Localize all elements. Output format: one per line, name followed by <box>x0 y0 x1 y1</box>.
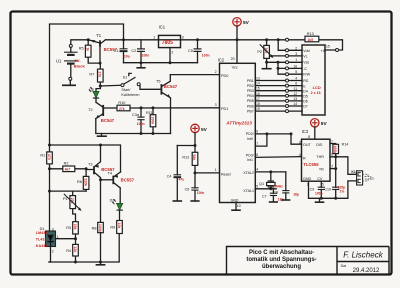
capacitor C8 18p <box>273 172 298 200</box>
svg-text:C2: C2 <box>131 49 136 53</box>
svg-text:R2: R2 <box>64 162 69 166</box>
svg-text:PD3/: PD3/ <box>246 153 254 157</box>
svg-text:3: 3 <box>52 227 54 231</box>
capacitor C3a 100n <box>132 106 145 135</box>
svg-text:2 x 16: 2 x 16 <box>311 91 321 95</box>
svg-text:15: 15 <box>326 45 330 49</box>
svg-text:R5: R5 <box>79 46 84 50</box>
svg-text:8: 8 <box>308 135 310 139</box>
svg-text:TLC555: TLC555 <box>303 162 319 167</box>
svg-text:C10: C10 <box>324 188 331 192</box>
wire PB4 to LCD D5 <box>255 95 302 97</box>
resistor R14 <box>330 142 348 156</box>
svg-text:R10: R10 <box>118 101 125 105</box>
transistor T2 BC547 <box>88 102 117 123</box>
svg-text:14: 14 <box>293 102 297 106</box>
svg-text:470: 470 <box>47 154 51 160</box>
svg-text:10MHz: 10MHz <box>273 185 284 189</box>
wire IC2 Vcc pin 20 <box>236 40 238 64</box>
capacitor C5 100n <box>188 38 210 62</box>
svg-text:PB4: PB4 <box>247 94 254 98</box>
IC1 7805 <box>153 25 184 63</box>
transistor T1 BC557 <box>88 33 117 63</box>
svg-text:7: 7 <box>256 142 258 146</box>
capacitor C10 220p <box>324 186 345 199</box>
resistor R13 <box>305 32 319 42</box>
crystal Q1 10MHz <box>259 172 283 189</box>
svg-text:10: 10 <box>237 204 241 208</box>
wire PB1 to LCD RS <box>255 80 302 82</box>
node R7 top junction <box>99 62 102 65</box>
svg-text:5: 5 <box>256 184 258 188</box>
svg-text:C7: C7 <box>262 194 267 198</box>
svg-text:D3: D3 <box>110 198 115 202</box>
svg-text:56k: 56k <box>192 154 196 160</box>
node T3 collector / T4 base <box>99 178 102 181</box>
svg-text:PB6: PB6 <box>247 104 254 108</box>
svg-text:4: 4 <box>299 153 301 157</box>
svg-text:Vss: Vss <box>303 61 309 65</box>
svg-text:R: R <box>303 156 306 160</box>
wire P1 branch <box>50 190 87 192</box>
svg-text:F. Lischeck: F. Lischeck <box>343 250 383 259</box>
svg-text:BC547: BC547 <box>164 84 178 89</box>
svg-text:100k: 100k <box>333 145 337 153</box>
svg-text:OUT: OUT <box>303 143 312 147</box>
svg-text:100k: 100k <box>150 116 154 124</box>
svg-text:Reset: Reset <box>221 172 231 176</box>
svg-text:5V: 5V <box>201 127 208 133</box>
svg-text:2: 2 <box>215 70 217 74</box>
resistor R10 27k <box>117 101 220 111</box>
svg-text:PD2/: PD2/ <box>246 132 254 136</box>
capacitor Cx dashed measured <box>363 174 372 181</box>
svg-text:5: 5 <box>322 182 324 186</box>
svg-text:12k: 12k <box>73 246 77 252</box>
ground symbol T2 <box>101 134 103 136</box>
resistor R5 <box>79 40 100 63</box>
connector K1 <box>351 170 362 185</box>
svg-text:100n: 100n <box>197 191 205 195</box>
resistor R8 100k <box>92 222 104 262</box>
svg-text:1: 1 <box>57 235 59 239</box>
svg-text:PB5: PB5 <box>247 99 254 103</box>
svg-text:2: 2 <box>52 249 54 253</box>
svg-text:100k: 100k <box>98 224 102 232</box>
capacitor C4 47u <box>167 146 184 202</box>
svg-text:TL431: TL431 <box>36 238 47 242</box>
svg-text:T3: T3 <box>88 162 92 166</box>
wire TL431 ref <box>56 238 76 240</box>
svg-text:1: 1 <box>153 36 155 40</box>
svg-text:7805: 7805 <box>162 40 173 46</box>
svg-text:8: 8 <box>256 153 258 157</box>
svg-text:DIS: DIS <box>316 143 323 147</box>
svg-text:29.4.2012: 29.4.2012 <box>353 268 380 274</box>
wire PB5 to LCD D6 <box>255 100 302 102</box>
wire PB2 to LCD E <box>255 85 302 87</box>
svg-text:5V: 5V <box>243 20 250 26</box>
IC2 ATTiny2313 box <box>215 57 256 208</box>
svg-text:VL: VL <box>303 55 307 59</box>
svg-text:Block: Block <box>74 64 86 69</box>
svg-text:Int0: Int0 <box>247 137 253 141</box>
svg-text:2: 2 <box>171 50 173 54</box>
left sense wire with R1 <box>40 144 52 232</box>
svg-text:R6: R6 <box>77 180 82 184</box>
svg-text:+A: +A <box>321 49 326 53</box>
node T1 emitter junction <box>87 38 90 41</box>
svg-text:12: 12 <box>293 92 297 96</box>
svg-text:4: 4 <box>256 168 258 172</box>
supply 5V symbol over IC2 <box>233 18 250 42</box>
capacitor C7 18p <box>262 189 283 202</box>
supply 5V symbol reset pullup <box>191 124 208 147</box>
wire main positive rail <box>71 40 343 50</box>
svg-text:2: 2 <box>331 165 333 169</box>
emitter rail to T3/T4 <box>50 145 121 172</box>
diode D1 TL431 <box>36 227 59 262</box>
svg-text:100n: 100n <box>142 53 150 57</box>
svg-text:R/W: R/W <box>303 73 311 77</box>
svg-text:15k: 15k <box>73 224 77 230</box>
svg-text:100n: 100n <box>137 122 145 126</box>
ground rail under IC1 <box>124 62 198 64</box>
svg-text:CV: CV <box>317 177 323 181</box>
svg-text:D2: D2 <box>89 88 94 92</box>
svg-text:Cx: Cx <box>370 177 375 181</box>
svg-text:T1: T1 <box>96 33 102 38</box>
svg-text:KA431: KA431 <box>36 244 47 248</box>
LED D2 green <box>89 86 101 102</box>
svg-text:K1: K1 <box>351 170 356 174</box>
svg-text:16: 16 <box>293 64 297 68</box>
bottom left ground rail <box>49 234 119 263</box>
svg-text:3: 3 <box>182 36 184 40</box>
transistor T5 BC547 <box>156 75 178 134</box>
svg-text:6: 6 <box>256 130 258 134</box>
svg-text:Vcc: Vcc <box>232 65 238 69</box>
wire battery plus rail loop top-left <box>50 24 124 145</box>
svg-text:RS: RS <box>303 79 309 83</box>
svg-text:tomatik und Spannungs-: tomatik und Spannungs- <box>246 257 316 263</box>
svg-text:13: 13 <box>293 97 297 101</box>
LCD display box <box>293 45 329 115</box>
svg-text:18p: 18p <box>293 193 299 197</box>
svg-text:R13: R13 <box>307 32 314 36</box>
ground symbol P2 <box>266 62 268 68</box>
ground symbol IC3 <box>319 198 321 201</box>
svg-text:PB3: PB3 <box>247 89 254 93</box>
svg-text:100n: 100n <box>315 192 323 196</box>
svg-text:6: 6 <box>295 82 297 86</box>
svg-text:T2: T2 <box>88 108 92 112</box>
svg-text:Kalibrieren: Kalibrieren <box>121 93 139 97</box>
svg-text:Pico C mit Abschaltau-: Pico C mit Abschaltau- <box>249 250 314 256</box>
svg-text:100n: 100n <box>202 54 210 58</box>
svg-text:R4: R4 <box>66 249 71 253</box>
svg-text:ATTiny2313: ATTiny2313 <box>225 120 252 125</box>
capacitor C9 100n <box>310 181 325 198</box>
svg-text:XTAL1: XTAL1 <box>243 189 254 193</box>
svg-text:P2: P2 <box>257 50 262 54</box>
svg-text:11: 11 <box>294 87 298 91</box>
svg-text:220k: 220k <box>83 178 87 186</box>
wire T3 collector down to R8 <box>100 180 102 223</box>
svg-text:R8: R8 <box>92 226 97 230</box>
wire C4 branch <box>177 145 195 147</box>
svg-text:27k: 27k <box>98 71 102 77</box>
resistor R9 <box>110 221 122 234</box>
svg-text:IC3: IC3 <box>302 129 309 134</box>
svg-text:überwachung: überwachung <box>262 264 301 270</box>
node C1 junction <box>122 38 125 41</box>
svg-text:Q1: Q1 <box>259 182 264 186</box>
resistor R2 4k7 <box>48 162 88 172</box>
supply 5V symbol over IC3 <box>311 119 328 140</box>
svg-text:27k: 27k <box>119 107 125 111</box>
svg-text:C1: C1 <box>114 49 119 53</box>
svg-text:R7: R7 <box>89 73 94 77</box>
svg-text:LM431: LM431 <box>36 231 47 235</box>
svg-text:R14: R14 <box>342 142 349 146</box>
svg-text:9V-: 9V- <box>75 58 82 63</box>
resistor R11 100k <box>146 106 156 135</box>
resistor R12 <box>182 146 197 173</box>
svg-text:PD0: PD0 <box>221 74 228 78</box>
wire T2 emitter to ground rail <box>96 119 171 134</box>
svg-text:47u: 47u <box>179 178 185 182</box>
svg-text:C5: C5 <box>188 49 193 53</box>
IC2 PD2 Int0 pin 6 <box>246 130 302 145</box>
battery U1 <box>56 44 85 85</box>
capacitor C2 100n <box>131 40 149 63</box>
svg-text:3: 3 <box>215 103 217 107</box>
svg-text:1%: 1% <box>340 190 345 194</box>
svg-text:PB1: PB1 <box>247 79 254 83</box>
svg-text:R9: R9 <box>110 225 115 229</box>
svg-text:U1: U1 <box>56 58 62 63</box>
svg-text:5V: 5V <box>321 121 328 127</box>
svg-text:PB7: PB7 <box>247 109 254 113</box>
svg-text:R12: R12 <box>182 155 189 159</box>
svg-text:C9: C9 <box>310 188 315 192</box>
potentiometer P2 <box>257 38 302 62</box>
node R7 / S1 junction <box>99 85 102 88</box>
capacitor C6 100n <box>185 173 205 201</box>
svg-text:D6: D6 <box>303 100 308 104</box>
wire LCD Vdd <box>277 38 302 52</box>
potentiometer P1 <box>63 191 82 222</box>
svg-text:C3a: C3a <box>132 113 140 117</box>
svg-text:IC2: IC2 <box>218 57 225 62</box>
svg-text:GND: GND <box>231 199 239 203</box>
IC2 port B pins to LCD <box>247 77 260 114</box>
svg-text:1: 1 <box>295 58 297 62</box>
transistor T3 BC557 <box>86 145 115 180</box>
wire THR to K1 <box>330 157 357 175</box>
svg-text:S1: S1 <box>123 75 128 79</box>
ground symbol C2 <box>140 63 142 67</box>
svg-text:R3: R3 <box>66 226 71 230</box>
svg-text:Int1: Int1 <box>247 158 253 162</box>
wire reset line <box>195 172 220 174</box>
svg-text:5: 5 <box>295 70 297 74</box>
svg-text:D5: D5 <box>303 95 308 99</box>
svg-text:BC557: BC557 <box>121 178 135 183</box>
svg-text:THR: THR <box>316 155 324 159</box>
svg-text:D7: D7 <box>303 105 308 109</box>
svg-text:C4: C4 <box>167 174 172 178</box>
svg-text:1k5: 1k5 <box>307 38 313 42</box>
ground symbol IC2 pin10 <box>235 203 237 210</box>
switch S1 Start/Kalibrieren <box>100 73 161 96</box>
IC3 TLC555 box <box>299 129 333 186</box>
wire PB3 to LCD D4 <box>255 90 302 92</box>
IC3 ground rail <box>309 181 357 198</box>
title block box <box>227 247 390 275</box>
svg-text:4k7: 4k7 <box>65 168 71 172</box>
svg-text:3: 3 <box>299 140 301 144</box>
wire PB6 to LCD D7 <box>255 105 302 107</box>
svg-text:1: 1 <box>215 168 217 172</box>
wire PB7 <box>255 110 302 112</box>
resistor R7 <box>89 63 103 86</box>
capacitor C1 10u <box>114 40 130 63</box>
svg-text:10u: 10u <box>124 54 130 58</box>
IC2 XTAL1 pin 5 <box>243 184 276 193</box>
svg-text:Vdd: Vdd <box>303 49 309 53</box>
svg-text:T5: T5 <box>156 80 160 84</box>
wire PD0 <box>170 74 219 76</box>
svg-text:XTAL2: XTAL2 <box>243 171 254 175</box>
svg-text:D4: D4 <box>303 89 308 93</box>
resistor R6 <box>77 169 89 191</box>
resistor R4 <box>66 239 78 262</box>
resistor R3 <box>66 222 78 239</box>
LED D3 <box>110 188 123 221</box>
wire LCD Vss / -C / RW ground column <box>267 61 302 76</box>
svg-text:4: 4 <box>295 77 297 81</box>
svg-text:T4: T4 <box>108 171 112 175</box>
svg-text:IC1: IC1 <box>159 25 166 30</box>
wire TR junction <box>330 157 336 187</box>
IC2 PD3 Int1 pin 7 <box>246 134 267 162</box>
svg-text:TR: TR <box>319 167 324 171</box>
svg-text:PB2: PB2 <box>247 84 254 88</box>
svg-text:C8: C8 <box>273 190 278 194</box>
svg-text:Start/: Start/ <box>121 88 131 92</box>
node R3/R4 ref junction <box>74 237 77 240</box>
connector circle LCD +A pin15 <box>336 49 339 52</box>
svg-text:Dat.: Dat. <box>341 264 347 268</box>
ground symbol bottom rail <box>100 262 102 264</box>
svg-text:-C: -C <box>303 67 307 71</box>
connector circle 5V rail <box>286 38 289 41</box>
svg-text:R1: R1 <box>40 153 45 157</box>
svg-text:BC547: BC547 <box>101 118 115 123</box>
svg-text:LCD: LCD <box>313 85 321 90</box>
svg-text:20: 20 <box>231 57 235 61</box>
transistor T4 BC557 <box>101 171 135 188</box>
svg-text:10k: 10k <box>117 223 121 229</box>
svg-text:R11: R11 <box>146 111 153 115</box>
svg-text:C6: C6 <box>185 188 190 192</box>
svg-text:PD1: PD1 <box>221 107 228 111</box>
svg-text:1k: 1k <box>85 47 89 51</box>
IC2 XTAL2 pin 4 <box>243 168 286 175</box>
svg-text:GND: GND <box>303 177 312 181</box>
